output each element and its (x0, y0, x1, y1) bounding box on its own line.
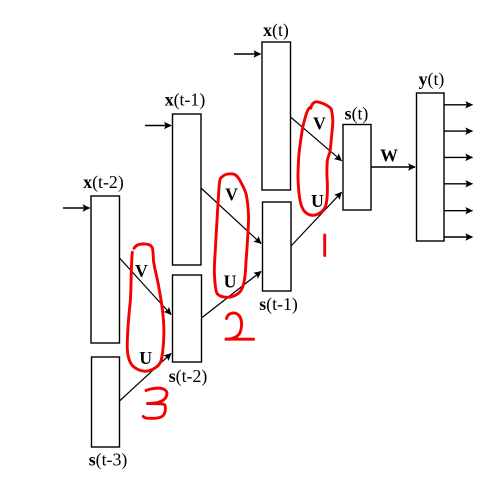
input arrow into x(t-1) (145, 125, 171, 127)
svg-text:s(t-3): s(t-3) (89, 450, 128, 471)
box s(t-3) (92, 357, 120, 447)
box y(t) (417, 93, 445, 241)
svg-text:s(t): s(t) (345, 104, 369, 125)
arrow V x(t-2) to s(t-2) (120, 258, 172, 315)
svg-text:x(t-1): x(t-1) (165, 90, 206, 111)
svg-text:y(t): y(t) (419, 69, 445, 90)
svg-text:s(t-2): s(t-2) (169, 366, 208, 387)
arrow V x(t) to s(t) (291, 117, 342, 161)
svg-text:V: V (135, 261, 148, 281)
svg-text:V: V (225, 185, 238, 205)
svg-text:x(t): x(t) (263, 20, 289, 41)
box s(t) (343, 125, 371, 211)
red digit 1 (323, 235, 326, 256)
svg-text:s(t-1): s(t-1) (259, 294, 298, 315)
red circle 3 around V,U (127, 244, 164, 371)
box x(t-1) (173, 114, 202, 265)
output arrows from y(t) (444, 105, 472, 237)
box x(t-2) (91, 196, 120, 343)
svg-text:U: U (224, 271, 237, 291)
svg-text:W: W (380, 146, 398, 166)
arrow V x(t-1) to s(t-1) (201, 188, 261, 244)
red circle 1 around V,U (298, 102, 333, 216)
arrow U s(t-2) to s(t-1) (202, 272, 262, 319)
box x(t) (262, 42, 291, 190)
red digit 2 (225, 313, 254, 339)
arrow U s(t-1) to s(t) (291, 192, 342, 246)
svg-text:U: U (139, 348, 152, 368)
box s(t-2) (173, 275, 202, 362)
svg-text:V: V (313, 113, 326, 133)
input arrow into x(t-2) (63, 207, 90, 209)
arrow U s(t-3) to s(t-2) (120, 354, 172, 402)
red digit 3 (143, 388, 167, 418)
svg-text:U: U (311, 191, 324, 211)
arrow W from s(t) to y(t) (371, 166, 415, 168)
red circle 2 around V,U (214, 174, 248, 298)
svg-text:x(t-2): x(t-2) (83, 172, 124, 193)
input arrow into x(t) (234, 53, 261, 55)
box s(t-1) (263, 202, 292, 291)
